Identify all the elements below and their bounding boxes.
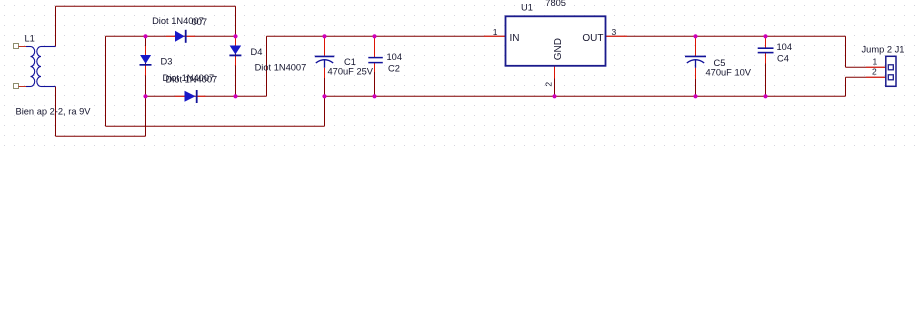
svg-text:2: 2 bbox=[872, 66, 877, 76]
svg-text:470uF 25V: 470uF 25V bbox=[328, 67, 374, 77]
svg-text:Jump 2 J1: Jump 2 J1 bbox=[862, 45, 905, 55]
svg-text:470uF 10V: 470uF 10V bbox=[706, 68, 752, 78]
svg-text:D4: D4 bbox=[251, 47, 263, 57]
svg-text:1: 1 bbox=[493, 27, 498, 37]
svg-text:Diot 1N4007: Diot 1N4007 bbox=[166, 74, 218, 84]
svg-text:007: 007 bbox=[192, 17, 208, 27]
svg-text:C1: C1 bbox=[344, 57, 356, 67]
svg-text:2: 2 bbox=[544, 82, 554, 87]
svg-text:Bien ap 2-2, ra 9V: Bien ap 2-2, ra 9V bbox=[16, 106, 92, 116]
svg-text:D3: D3 bbox=[161, 57, 173, 67]
svg-text:C5: C5 bbox=[714, 58, 726, 68]
svg-text:OUT: OUT bbox=[582, 33, 603, 44]
svg-text:3: 3 bbox=[612, 27, 617, 37]
svg-text:C4: C4 bbox=[777, 54, 789, 64]
svg-text:7805: 7805 bbox=[545, 0, 566, 8]
svg-text:C2: C2 bbox=[388, 64, 400, 74]
svg-text:U1: U1 bbox=[521, 2, 533, 12]
svg-text:L1: L1 bbox=[25, 33, 35, 43]
svg-text:1: 1 bbox=[873, 57, 878, 67]
svg-text:IN: IN bbox=[510, 33, 520, 44]
svg-text:Diot 1N4007: Diot 1N4007 bbox=[255, 62, 307, 72]
svg-text:GND: GND bbox=[553, 38, 564, 60]
svg-text:104: 104 bbox=[387, 52, 403, 62]
svg-text:104: 104 bbox=[777, 42, 793, 52]
